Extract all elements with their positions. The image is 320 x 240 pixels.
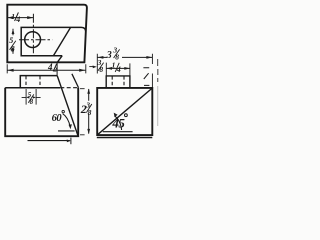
- front view tab: [20, 76, 57, 88]
- small marks right of side view: [143, 68, 149, 86]
- extra line under front view: [28, 140, 70, 142]
- svg-text:4: 4: [15, 15, 20, 24]
- svg-text:3: 3: [106, 50, 112, 61]
- dimension 5/8 hole text: [28, 91, 34, 106]
- dimension 2-3/8 text: [80, 100, 92, 116]
- hole circle: [25, 32, 41, 48]
- dimension 1-1/4 text: [11, 12, 20, 24]
- dimension 4-1/2 extension lines: [7, 64, 86, 73]
- top view outline: [7, 5, 87, 63]
- dimension 1-1/4 arrows: [7, 16, 33, 19]
- dimension 3-3/8 text: [106, 46, 119, 62]
- dimension 2-3/8 line: [88, 89, 90, 134]
- svg-text:1: 1: [11, 12, 15, 21]
- dimension 4-1/2 text: [47, 62, 58, 74]
- front view outline: [5, 88, 78, 137]
- dimension 1-1/4 side line: [106, 67, 129, 69]
- front view top edge hidden: [60, 87, 78, 89]
- tick under front view: [70, 138, 72, 145]
- dimension 3/8 text: [97, 58, 104, 74]
- dimension 1-1/4 line: [7, 17, 33, 19]
- svg-text:45: 45: [111, 116, 125, 131]
- front view incline upper right: [72, 74, 79, 88]
- svg-text:4: 4: [47, 62, 53, 72]
- side view tab: [106, 76, 130, 88]
- 45 degree label: [111, 116, 125, 131]
- scan artifacts right edge: [157, 59, 159, 126]
- top view inclined edge upper: [53, 27, 70, 55]
- 60 degree label: [52, 113, 63, 124]
- hole vertical centerline: [32, 14, 34, 53]
- top view step edges: [21, 27, 85, 55]
- svg-text:1: 1: [112, 61, 116, 70]
- 60 degree reference line: [58, 130, 75, 132]
- dimension 3/8 stub arrow: [89, 66, 93, 68]
- front view hole hidden lines: [26, 76, 40, 87]
- hole horizontal centerline: [19, 39, 52, 41]
- dimension 3-3/8 line: [97, 56, 152, 58]
- svg-text:60: 60: [52, 113, 63, 124]
- top view inclined edge lower: [57, 56, 62, 63]
- side view outline: [97, 88, 152, 135]
- front view top edge solid: [5, 87, 60, 89]
- dimension 3-3/8 extension lines: [97, 54, 152, 88]
- 45 degree reference line: [103, 131, 133, 133]
- dimension extension lines above tab: [106, 63, 130, 76]
- dimension 2-3/8 ticks: [80, 89, 85, 135]
- dimension 4-1/2 line: [7, 69, 85, 71]
- projection line between views: [56, 62, 58, 75]
- side view 45 diagonal: [97, 88, 152, 135]
- front view incline 60deg: [57, 76, 78, 136]
- dimension 5/8 hole stubs: [22, 96, 41, 98]
- side view ground line: [97, 137, 153, 139]
- 45 degree arc: [115, 116, 122, 130]
- 60 degree leader arc: [63, 114, 71, 127]
- side view tab hidden lines: [112, 76, 124, 87]
- dimension 5/8 hole extension lines: [26, 89, 36, 105]
- svg-text:8: 8: [115, 53, 119, 62]
- dimension 5/8 left vertical: [12, 29, 14, 54]
- dimension 1-1/4 side text: [112, 61, 121, 75]
